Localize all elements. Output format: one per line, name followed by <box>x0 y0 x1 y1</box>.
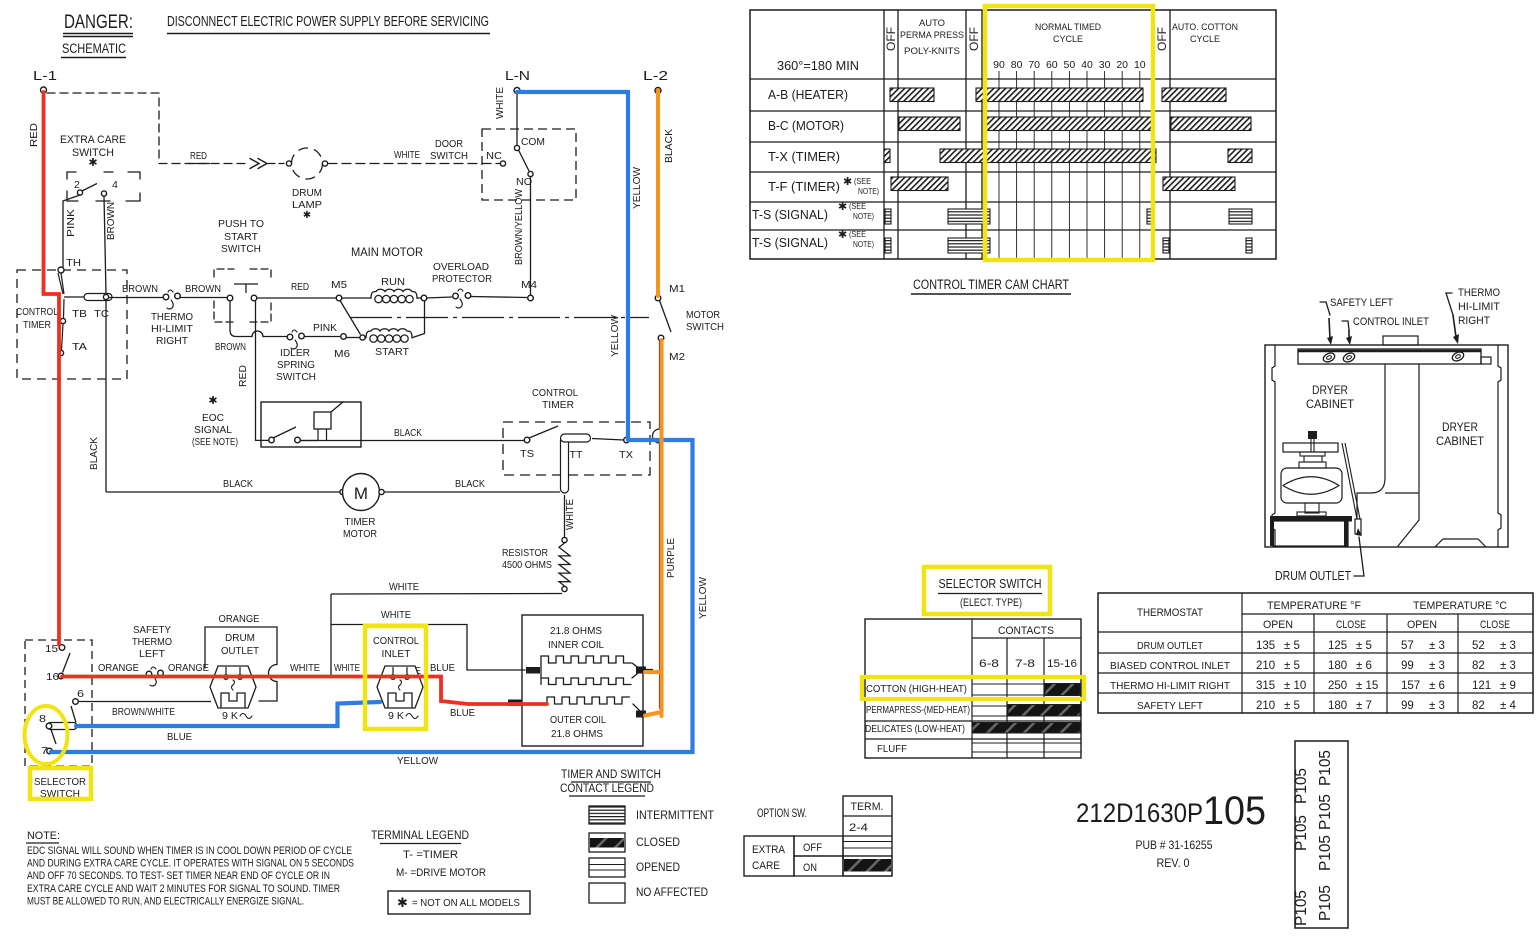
drum outlet label <box>1275 528 1364 583</box>
svg-text:P105: P105 <box>1293 890 1310 926</box>
svg-text:± 6: ± 6 <box>1356 660 1372 672</box>
resistor 4500 ohms <box>502 537 570 591</box>
svg-text:± 3: ± 3 <box>1500 660 1516 672</box>
dryer cabinet top console bar <box>1298 336 1491 364</box>
svg-text:± 5: ± 5 <box>1284 700 1300 712</box>
wire blue (selector 8 to control inlet) <box>76 702 380 726</box>
extra care switch EC1 dashed enclosure <box>47 93 159 161</box>
svg-text:YELLOW: YELLOW <box>609 315 621 357</box>
svg-text:NC: NC <box>486 150 502 162</box>
svg-text:START: START <box>375 346 410 358</box>
svg-text:L-1: L-1 <box>33 68 57 83</box>
thermostat temperature table <box>1098 593 1533 713</box>
svg-text:135: 135 <box>1256 640 1275 652</box>
terminal TB <box>60 299 87 324</box>
svg-text:CONTROL TIMER CAM CHART: CONTROL TIMER CAM CHART <box>913 277 1069 292</box>
svg-text:DRUM OUTLET: DRUM OUTLET <box>1137 640 1204 652</box>
svg-text:P105: P105 <box>1317 794 1334 830</box>
svg-text:BLUE: BLUE <box>167 731 192 743</box>
svg-text:SWITCH: SWITCH <box>276 371 316 383</box>
svg-text:DOOR: DOOR <box>435 138 463 150</box>
svg-text:BLUE: BLUE <box>450 707 475 719</box>
cam T-S signal 1 bars <box>885 209 1252 224</box>
svg-text:BROWN: BROWN <box>215 341 246 353</box>
svg-text:PROTECTOR: PROTECTOR <box>432 273 492 285</box>
selector table row PERMAPRESS <box>866 704 1080 716</box>
svg-text:FLUFF: FLUFF <box>877 743 907 755</box>
svg-text:PUSH TO: PUSH TO <box>218 218 264 230</box>
control timer CT1 (left section) <box>16 270 127 379</box>
svg-text:COM: COM <box>521 136 545 148</box>
terminal TS <box>520 426 558 460</box>
svg-text:ORANGE: ORANGE <box>98 662 139 674</box>
svg-text:OFF: OFF <box>803 842 822 854</box>
svg-text:TIMER: TIMER <box>542 399 574 411</box>
wire BLUE labels <box>167 662 475 743</box>
svg-text:LEFT: LEFT <box>139 648 166 660</box>
svg-text:4500 OHMS: 4500 OHMS <box>502 559 552 571</box>
wire PINK (terminal 2 to TH) <box>63 195 80 267</box>
svg-text:WHITE: WHITE <box>564 499 576 530</box>
svg-text:TA: TA <box>72 341 87 353</box>
svg-text:6: 6 <box>77 688 84 700</box>
svg-text:20: 20 <box>1116 59 1128 71</box>
svg-text:EOC: EOC <box>202 412 224 424</box>
P105 sticker box <box>1293 741 1348 928</box>
svg-text:30: 30 <box>1099 59 1111 71</box>
cam T-F timer bars <box>891 177 1235 191</box>
svg-text:BLACK: BLACK <box>223 478 253 490</box>
svg-text:P105: P105 <box>1293 815 1310 851</box>
svg-text:T-F (TIMER): T-F (TIMER) <box>768 179 840 194</box>
legend intermittent <box>589 806 714 824</box>
svg-text:CONTROL: CONTROL <box>373 635 419 647</box>
cabinet text right <box>1436 422 1484 448</box>
svg-text:250: 250 <box>1328 680 1347 692</box>
svg-text:A-B (HEATER): A-B (HEATER) <box>768 87 848 102</box>
svg-text:105: 105 <box>1203 789 1266 833</box>
wire BROWN (terminal 4 to TC) <box>104 196 117 294</box>
svg-text:RIGHT: RIGHT <box>156 335 189 347</box>
wire BROWN/WHITE (6 to drum outlet) <box>78 702 211 719</box>
highlight box (control inlet) <box>365 626 426 729</box>
thermostat safety thermo left <box>132 624 172 686</box>
node L-N <box>505 68 530 94</box>
svg-text:WHITE: WHITE <box>290 662 320 674</box>
svg-text:CARE: CARE <box>752 860 780 872</box>
svg-text:CONTACT LEGEND: CONTACT LEGEND <box>560 783 654 795</box>
cam chart row label A-B (HEATER) <box>768 87 848 102</box>
legend no affected <box>589 883 708 903</box>
terminal TH <box>58 257 81 273</box>
svg-text:OFF: OFF <box>886 27 898 51</box>
svg-text:AND DURING EXTRA CARE CYCLE. I: AND DURING EXTRA CARE CYCLE. IT OPERATES… <box>27 858 354 870</box>
terminal 6 <box>73 688 84 704</box>
svg-text:NOTE): NOTE) <box>853 211 874 221</box>
wire red (L-1 to selector 15) <box>44 92 60 645</box>
svg-text:± 6: ± 6 <box>1429 680 1445 692</box>
terminal 16 <box>46 653 70 683</box>
svg-text:AUTO. COTTON: AUTO. COTTON <box>1172 22 1238 33</box>
thermostat control inlet <box>373 635 423 722</box>
svg-text:OUTER COIL: OUTER COIL <box>550 714 606 726</box>
selector table row DELICATES <box>865 723 1080 736</box>
terminal M6 <box>334 334 350 360</box>
svg-text:± 5: ± 5 <box>1356 640 1372 652</box>
wire BROWN (TC to thermo hi-limit) <box>109 283 163 298</box>
heater inner coil 21.8 ohms <box>526 625 653 685</box>
svg-text:PURPLE: PURPLE <box>665 538 677 578</box>
wire BLACK label (L-2 vertical) <box>663 129 675 163</box>
highlight box (cotton row) <box>862 677 1084 699</box>
svg-text:P105: P105 <box>1293 768 1310 804</box>
svg-text:OPEN: OPEN <box>1263 619 1293 631</box>
svg-text:RIGHT: RIGHT <box>1458 315 1490 327</box>
selector switch table title <box>938 576 1042 609</box>
svg-text:OPENED: OPENED <box>636 862 680 874</box>
svg-text:✱: ✱ <box>397 895 408 910</box>
svg-text:NO: NO <box>516 176 532 188</box>
svg-text:P105: P105 <box>1317 750 1334 786</box>
terminal TX <box>592 437 633 461</box>
svg-text:CLOSE: CLOSE <box>1336 619 1366 631</box>
motor switch lever <box>660 301 725 334</box>
svg-text:57: 57 <box>1401 640 1414 652</box>
svg-text:DELICATES (LOW-HEAT): DELICATES (LOW-HEAT) <box>865 723 965 735</box>
svg-text:315: 315 <box>1256 680 1275 692</box>
svg-text:INNER COIL: INNER COIL <box>548 639 604 651</box>
svg-text:4: 4 <box>112 179 118 191</box>
wire WHITE (L-N to COM) <box>494 87 517 146</box>
svg-text:15-16: 15-16 <box>1047 658 1077 670</box>
svg-text:INLET: INLET <box>382 648 412 660</box>
svg-text:99: 99 <box>1401 660 1414 672</box>
terminal TT (plunger) <box>561 434 591 493</box>
svg-text:CONTROL INLET: CONTROL INLET <box>1353 316 1429 328</box>
wire red (selector 16 to outer coil) <box>62 677 547 705</box>
svg-text:EXTRA CARE CYCLE AND WAIT 2 MI: EXTRA CARE CYCLE AND WAIT 2 MINUTES FOR … <box>27 883 340 895</box>
svg-text:WHITE: WHITE <box>389 581 419 593</box>
svg-text:80: 80 <box>1011 59 1023 71</box>
svg-text:✱: ✱ <box>838 201 847 213</box>
svg-text:YELLOW: YELLOW <box>631 167 643 209</box>
svg-text:THERMO HI-LIMIT RIGHT: THERMO HI-LIMIT RIGHT <box>1110 680 1231 692</box>
wire BROWN (push switch to idler) <box>215 301 287 353</box>
svg-text:P105: P105 <box>1317 885 1334 921</box>
svg-text:DRYER: DRYER <box>1442 422 1478 434</box>
wire PURPLE label <box>665 538 677 578</box>
svg-text:DANGER:: DANGER: <box>64 12 133 33</box>
selector switch contacts table <box>865 619 1081 758</box>
svg-text:THERMO: THERMO <box>151 311 193 323</box>
wire WHITE (TT to resistor) <box>564 495 576 537</box>
svg-text:START: START <box>224 231 259 243</box>
wire blue (TX to selector 7) <box>51 440 693 752</box>
timer motor TM1 <box>340 474 384 541</box>
svg-text:82: 82 <box>1472 660 1485 672</box>
svg-text:16: 16 <box>46 671 59 683</box>
svg-text:TT: TT <box>570 449 584 461</box>
svg-text:± 4: ± 4 <box>1500 700 1517 712</box>
svg-text:HI-LIMIT: HI-LIMIT <box>1458 301 1500 313</box>
control timer contacts TH-TB-TA <box>58 273 112 301</box>
dryer cabinet label control inlet <box>1342 316 1429 345</box>
svg-text:WHITE: WHITE <box>494 87 506 119</box>
cam chart cycle scale <box>993 59 1146 259</box>
svg-text:RED: RED <box>237 365 249 387</box>
wire WHITE (net to inner coil) <box>331 609 525 677</box>
svg-text:210: 210 <box>1256 700 1275 712</box>
terminal M1 <box>655 283 685 301</box>
svg-text:ORANGE: ORANGE <box>168 662 209 674</box>
svg-text:60: 60 <box>1046 59 1058 71</box>
svg-text:BLACK: BLACK <box>394 427 422 439</box>
svg-text:TEMPERATURE °C: TEMPERATURE °C <box>1413 600 1507 612</box>
svg-text:IDLER: IDLER <box>280 347 310 359</box>
wire RED (push switch to M5) <box>257 281 336 298</box>
svg-text:PUB # 31-16255: PUB # 31-16255 <box>1136 840 1213 852</box>
svg-text:DISCONNECT ELECTRIC POWER SUPP: DISCONNECT ELECTRIC POWER SUPPLY BEFORE … <box>167 14 489 30</box>
svg-text:BLUE: BLUE <box>430 662 455 674</box>
svg-text:PINK: PINK <box>65 209 77 237</box>
wire RED dashed (to drum lamp) <box>159 150 284 169</box>
wire BROWN/YELLOW (NO to M4) <box>513 177 531 296</box>
wire WHITE (resistor to heater net) <box>331 581 562 594</box>
svg-text:82: 82 <box>1472 700 1485 712</box>
terminal M2 <box>658 335 685 363</box>
svg-text:NOTE): NOTE) <box>858 186 879 196</box>
legend not on all models box <box>388 891 530 914</box>
svg-text:± 5: ± 5 <box>1284 640 1300 652</box>
svg-text:NOTE:: NOTE: <box>27 830 60 842</box>
wire BROWN (thermo to push-to-start) <box>180 283 227 298</box>
svg-text:BLACK: BLACK <box>455 478 485 490</box>
overload protector OP1 <box>426 261 492 308</box>
wire orange (L-2 to M1) <box>656 90 660 296</box>
svg-text:SAFETY LEFT: SAFETY LEFT <box>1330 297 1393 309</box>
terminal 15 <box>45 643 65 655</box>
wire WHITE (net vertical) <box>330 594 332 677</box>
svg-text:TERM.: TERM. <box>851 801 884 813</box>
svg-text:CABINET: CABINET <box>1436 436 1484 448</box>
svg-text:± 7: ± 7 <box>1356 700 1372 712</box>
svg-text:DRUM: DRUM <box>225 632 255 644</box>
cabinet text left <box>1306 385 1354 411</box>
highlight box (selector switch label) <box>30 768 91 799</box>
svg-text:EXTRA: EXTRA <box>752 844 786 856</box>
svg-text:CONTROL: CONTROL <box>532 387 578 399</box>
EOC signal label <box>192 395 238 448</box>
highlight ellipse (terminals 8,7) <box>25 706 68 764</box>
motor run winding <box>342 276 427 303</box>
svg-text:BLACK: BLACK <box>88 437 100 470</box>
svg-text:± 10: ± 10 <box>1284 680 1306 692</box>
dryer cabinet outline <box>1265 345 1508 547</box>
svg-text:9 K: 9 K <box>388 710 404 722</box>
cam chart T-F see note <box>843 176 879 196</box>
wire BLACK (EOC to TS) <box>300 427 524 441</box>
svg-text:TB: TB <box>72 308 87 320</box>
svg-text:T- =TIMER: T- =TIMER <box>403 849 458 861</box>
svg-text:90: 90 <box>993 59 1005 71</box>
svg-text:OPEN: OPEN <box>1407 619 1437 631</box>
svg-text:YELLOW: YELLOW <box>397 755 438 767</box>
svg-text:21.8 OHMS: 21.8 OHMS <box>551 728 603 740</box>
mechanical link (dash-dot) <box>350 317 649 319</box>
svg-text:MOTOR: MOTOR <box>343 528 377 540</box>
main motor label <box>351 245 423 259</box>
svg-text:± 3: ± 3 <box>1500 640 1516 652</box>
svg-text:RED: RED <box>190 150 207 162</box>
svg-text:AND OFF 70 SECONDS. TO TEST- S: AND OFF 70 SECONDS. TO TEST- SET TIMER N… <box>27 870 330 882</box>
svg-text:± 3: ± 3 <box>1429 660 1445 672</box>
svg-text:BROWN/YELLOW: BROWN/YELLOW <box>513 189 525 265</box>
svg-text:360°=180 MIN: 360°=180 MIN <box>777 59 859 73</box>
cam T-X timer bars <box>884 149 1252 163</box>
svg-text:M4: M4 <box>521 279 537 291</box>
svg-text:MAIN MOTOR: MAIN MOTOR <box>351 245 423 259</box>
svg-text:OPTION SW.: OPTION SW. <box>757 808 807 820</box>
svg-text:B-C (MOTOR): B-C (MOTOR) <box>768 118 844 133</box>
svg-text:CONTACTS: CONTACTS <box>998 625 1054 637</box>
terminal M4 <box>521 279 537 301</box>
selector table row COTTON <box>866 683 1080 696</box>
thermostat THR thermo hi-limit right <box>151 290 194 347</box>
wire WHITE label (drum outlet to control inlet) <box>290 662 360 674</box>
svg-text:ORANGE: ORANGE <box>219 613 260 625</box>
control timer cam chart table <box>750 10 1276 259</box>
centrifugal switch lever M5 <box>340 301 361 335</box>
cabinet screw terminals <box>1322 350 1465 363</box>
blower motor assembly <box>1270 431 1360 546</box>
wire orange (M2 to heater coils) <box>645 340 662 716</box>
svg-text:EDC SIGNAL WILL SOUND WHEN TIM: EDC SIGNAL WILL SOUND WHEN TIMER IS IN C… <box>27 845 352 857</box>
svg-text:9 K: 9 K <box>222 710 238 722</box>
svg-text:NORMAL TIMED: NORMAL TIMED <box>1035 22 1101 33</box>
svg-text:AUTO: AUTO <box>919 18 945 29</box>
svg-text:CONTROL: CONTROL <box>16 306 58 318</box>
svg-text:(SEE NOTE): (SEE NOTE) <box>192 436 238 448</box>
cam chart row label T-S (SIGNAL) 2 <box>752 229 874 250</box>
title SCHEMATIC <box>61 41 126 58</box>
svg-text:L-2: L-2 <box>643 68 668 83</box>
svg-text:21.8 OHMS: 21.8 OHMS <box>550 625 602 637</box>
svg-text:M6: M6 <box>334 348 350 360</box>
svg-text:INTERMITTENT: INTERMITTENT <box>636 810 714 822</box>
thermostat drum outlet <box>205 613 277 722</box>
dryer cabinet label thermo hi-limit right <box>1446 287 1500 344</box>
heater outer coil 21.8 ohms <box>508 697 646 740</box>
svg-text:L-N: L-N <box>505 68 530 83</box>
svg-text:± 5: ± 5 <box>1284 660 1300 672</box>
svg-text:± 3: ± 3 <box>1429 700 1445 712</box>
wire BLACK (to timer motor) <box>106 478 340 492</box>
terminal M5 <box>331 279 347 301</box>
svg-text:HI-LIMIT: HI-LIMIT <box>151 323 194 335</box>
svg-text:M- =DRIVE MOTOR: M- =DRIVE MOTOR <box>396 867 486 879</box>
extra care switch EC1 <box>60 134 140 201</box>
terminal TA <box>58 324 87 356</box>
cam chart row label T-X (TIMER) <box>768 149 840 164</box>
svg-text:(ELECT. TYPE): (ELECT. TYPE) <box>960 597 1022 609</box>
svg-text:PERMA PRESS: PERMA PRESS <box>900 30 964 41</box>
wire (M2 down to heater, with jump) <box>653 341 660 708</box>
svg-text:212D1630P: 212D1630P <box>1076 798 1203 828</box>
svg-text:THERMO: THERMO <box>1458 287 1500 299</box>
svg-text:SAFETY: SAFETY <box>133 624 171 636</box>
svg-text:EXTRA CARE: EXTRA CARE <box>60 134 126 146</box>
svg-text:BIASED CONTROL INLET: BIASED CONTROL INLET <box>1110 660 1231 672</box>
svg-text:✱: ✱ <box>88 157 97 169</box>
svg-text:T-X (TIMER): T-X (TIMER) <box>768 149 840 164</box>
svg-text:180: 180 <box>1328 700 1347 712</box>
svg-text:PERMAPRESS-(MED-HEAT): PERMAPRESS-(MED-HEAT) <box>866 704 970 716</box>
svg-text:(SEE: (SEE <box>854 176 871 186</box>
svg-text:121: 121 <box>1472 680 1491 692</box>
svg-text:SCHEMATIC: SCHEMATIC <box>62 41 126 56</box>
svg-text:TIMER: TIMER <box>23 319 51 331</box>
svg-text:RED: RED <box>291 281 309 293</box>
svg-text:WHITE: WHITE <box>334 662 360 674</box>
wire WHITE dashed (lamp to door switch NC) <box>328 149 500 164</box>
note paragraph <box>26 830 354 907</box>
svg-text:✱: ✱ <box>303 210 311 221</box>
svg-text:(SEE: (SEE <box>849 201 866 211</box>
wire RED label (L-1 vertical) <box>28 123 40 147</box>
control timer CT1 (TS TT TX section) <box>503 387 650 475</box>
svg-text:15: 15 <box>45 643 58 655</box>
legend opened <box>589 858 680 877</box>
svg-text:POLY-KNITS: POLY-KNITS <box>904 46 960 57</box>
svg-text:(SEE: (SEE <box>849 229 866 239</box>
cam chart row label T-S (SIGNAL) 1 <box>752 201 874 222</box>
svg-text:6-8: 6-8 <box>979 658 999 670</box>
svg-text:T-S (SIGNAL): T-S (SIGNAL) <box>752 235 828 250</box>
terminal 7 <box>41 745 52 757</box>
svg-text:CYCLE: CYCLE <box>1190 34 1220 45</box>
svg-text:TC: TC <box>94 308 109 320</box>
svg-text:TIMER: TIMER <box>345 516 376 528</box>
svg-text:= NOT ON ALL MODELS: = NOT ON ALL MODELS <box>412 897 520 909</box>
node L-2 <box>643 68 668 94</box>
svg-text:TIMER AND SWITCH: TIMER AND SWITCH <box>561 769 661 781</box>
highlight box (normal timed cycle) <box>985 6 1153 260</box>
svg-text:DRYER: DRYER <box>1312 385 1348 397</box>
svg-text:WHITE: WHITE <box>394 149 420 161</box>
svg-text:BLACK: BLACK <box>663 129 675 163</box>
svg-text:YELLOW: YELLOW <box>697 577 709 619</box>
timer and switch contact legend title <box>560 769 661 796</box>
legend closed <box>589 833 680 852</box>
svg-text:± 15: ± 15 <box>1356 680 1378 692</box>
terminal TC <box>94 294 109 320</box>
svg-text:M: M <box>354 484 368 503</box>
svg-text:BROWN/WHITE: BROWN/WHITE <box>112 706 175 718</box>
door switch DS1 <box>430 129 576 200</box>
svg-text:BROWN: BROWN <box>185 283 221 295</box>
svg-text:NOTE): NOTE) <box>853 239 874 249</box>
svg-text:PINK: PINK <box>313 322 337 334</box>
dryer cabinet label safety left <box>1320 297 1393 345</box>
svg-text:REV. 0: REV. 0 <box>1157 858 1190 870</box>
wire BLACK (timer motor to TT) <box>384 478 560 492</box>
cam T-S signal 2 bars <box>885 238 1252 253</box>
cam B-C motor bars <box>899 117 1251 131</box>
svg-text:± 3: ± 3 <box>1429 640 1445 652</box>
wire blue (L-N to TX) <box>517 92 628 438</box>
svg-text:BROWN: BROWN <box>122 283 158 295</box>
selector switch SS1 <box>25 640 92 766</box>
